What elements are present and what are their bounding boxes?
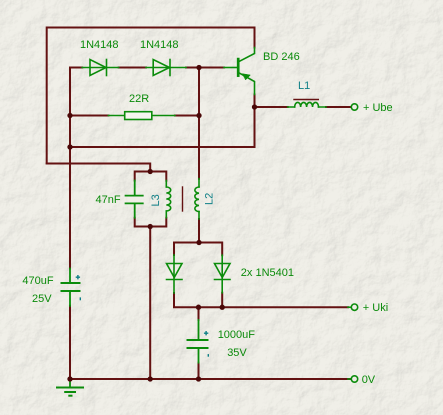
wire x=199 rail top (junction to resistor to L2): [198, 68, 200, 243]
node bridge bottom left: [196, 305, 201, 310]
inductor L1: [288, 102, 326, 107]
capacitor 47nF: [126, 181, 143, 218]
svg-text:L3: L3: [150, 194, 162, 206]
inductor L3: [166, 181, 170, 218]
ground: [57, 381, 83, 396]
capacitor C2 1000uF: [188, 320, 208, 363]
wire tank bottom: [135, 218, 167, 227]
svg-text:2x 1N5401: 2x 1N5401: [241, 267, 294, 279]
svg-text:1000uF: 1000uF: [218, 329, 256, 341]
svg-text:+ Uki: + Uki: [363, 302, 388, 314]
wire tank top: [135, 172, 167, 181]
polarity - of C1: [79, 297, 81, 300]
node diode junction: [196, 65, 201, 70]
wire transistor collector top stub: [254, 95, 256, 108]
svg-text:25V: 25V: [32, 293, 52, 305]
inductor L2: [195, 179, 199, 219]
svg-text:1N4148: 1N4148: [140, 39, 179, 51]
node tank top: [148, 169, 153, 174]
node feedback left: [67, 144, 72, 149]
wire bridge top: [174, 243, 222, 256]
node resistor right: [196, 113, 201, 118]
capacitor C1 470uF: [62, 269, 80, 306]
wire bottom rail to 0V: [70, 378, 351, 380]
svg-text:22R: 22R: [129, 93, 149, 105]
wire bridge bottom and +Uki: [174, 293, 348, 307]
transistor Q1 BD246: [224, 48, 255, 95]
node bridge bottom right: [220, 305, 225, 310]
diode D3 1N5401: [167, 255, 183, 293]
L1 core bar: [294, 99, 318, 101]
diode D1 1N4148: [82, 60, 118, 76]
node bridge top: [196, 240, 201, 245]
diode D4 1N5401: [215, 255, 231, 293]
terminal +Ube: [351, 104, 357, 110]
node resistor left: [67, 113, 72, 118]
svg-text:35V: 35V: [227, 347, 247, 359]
polarity - of C2: [207, 354, 209, 357]
node ground corner: [67, 376, 72, 381]
terminal +Uki: [348, 304, 358, 310]
wire left rail x=70: [69, 68, 71, 380]
wire frame bottom to tank top: [47, 164, 151, 172]
polarity + of C2: [204, 331, 208, 335]
wire top rail and left frame: [47, 28, 255, 164]
wire resistor row y=115.5: [70, 115, 199, 117]
node tank ground: [148, 376, 153, 381]
wire tank bottom to ground rail: [149, 227, 151, 380]
svg-text:0V: 0V: [362, 374, 376, 386]
svg-text:1N4148: 1N4148: [80, 39, 119, 51]
terminal 0V: [348, 376, 358, 382]
svg-text:+ Ube: + Ube: [363, 102, 393, 114]
node emitter junction: [252, 104, 257, 109]
resistor 22R: [108, 112, 174, 120]
svg-text:L2: L2: [204, 193, 216, 205]
diode D2 1N4148: [146, 60, 186, 76]
wire y=147 feedback: [70, 107, 255, 147]
wire diode row / base row y=67.5: [70, 67, 224, 69]
svg-text:L1: L1: [298, 80, 310, 92]
svg-text:470uF: 470uF: [22, 275, 53, 287]
svg-text:47nF: 47nF: [96, 194, 121, 206]
core of transformer: [182, 187, 184, 211]
node cap ground: [196, 376, 201, 381]
node tank bottom: [148, 224, 153, 229]
polarity + of C1: [76, 275, 80, 279]
wire emitter to L1 to +Ube: [255, 106, 351, 108]
wire 1000uF branch: [198, 307, 200, 379]
svg-text:BD 246: BD 246: [263, 51, 300, 63]
